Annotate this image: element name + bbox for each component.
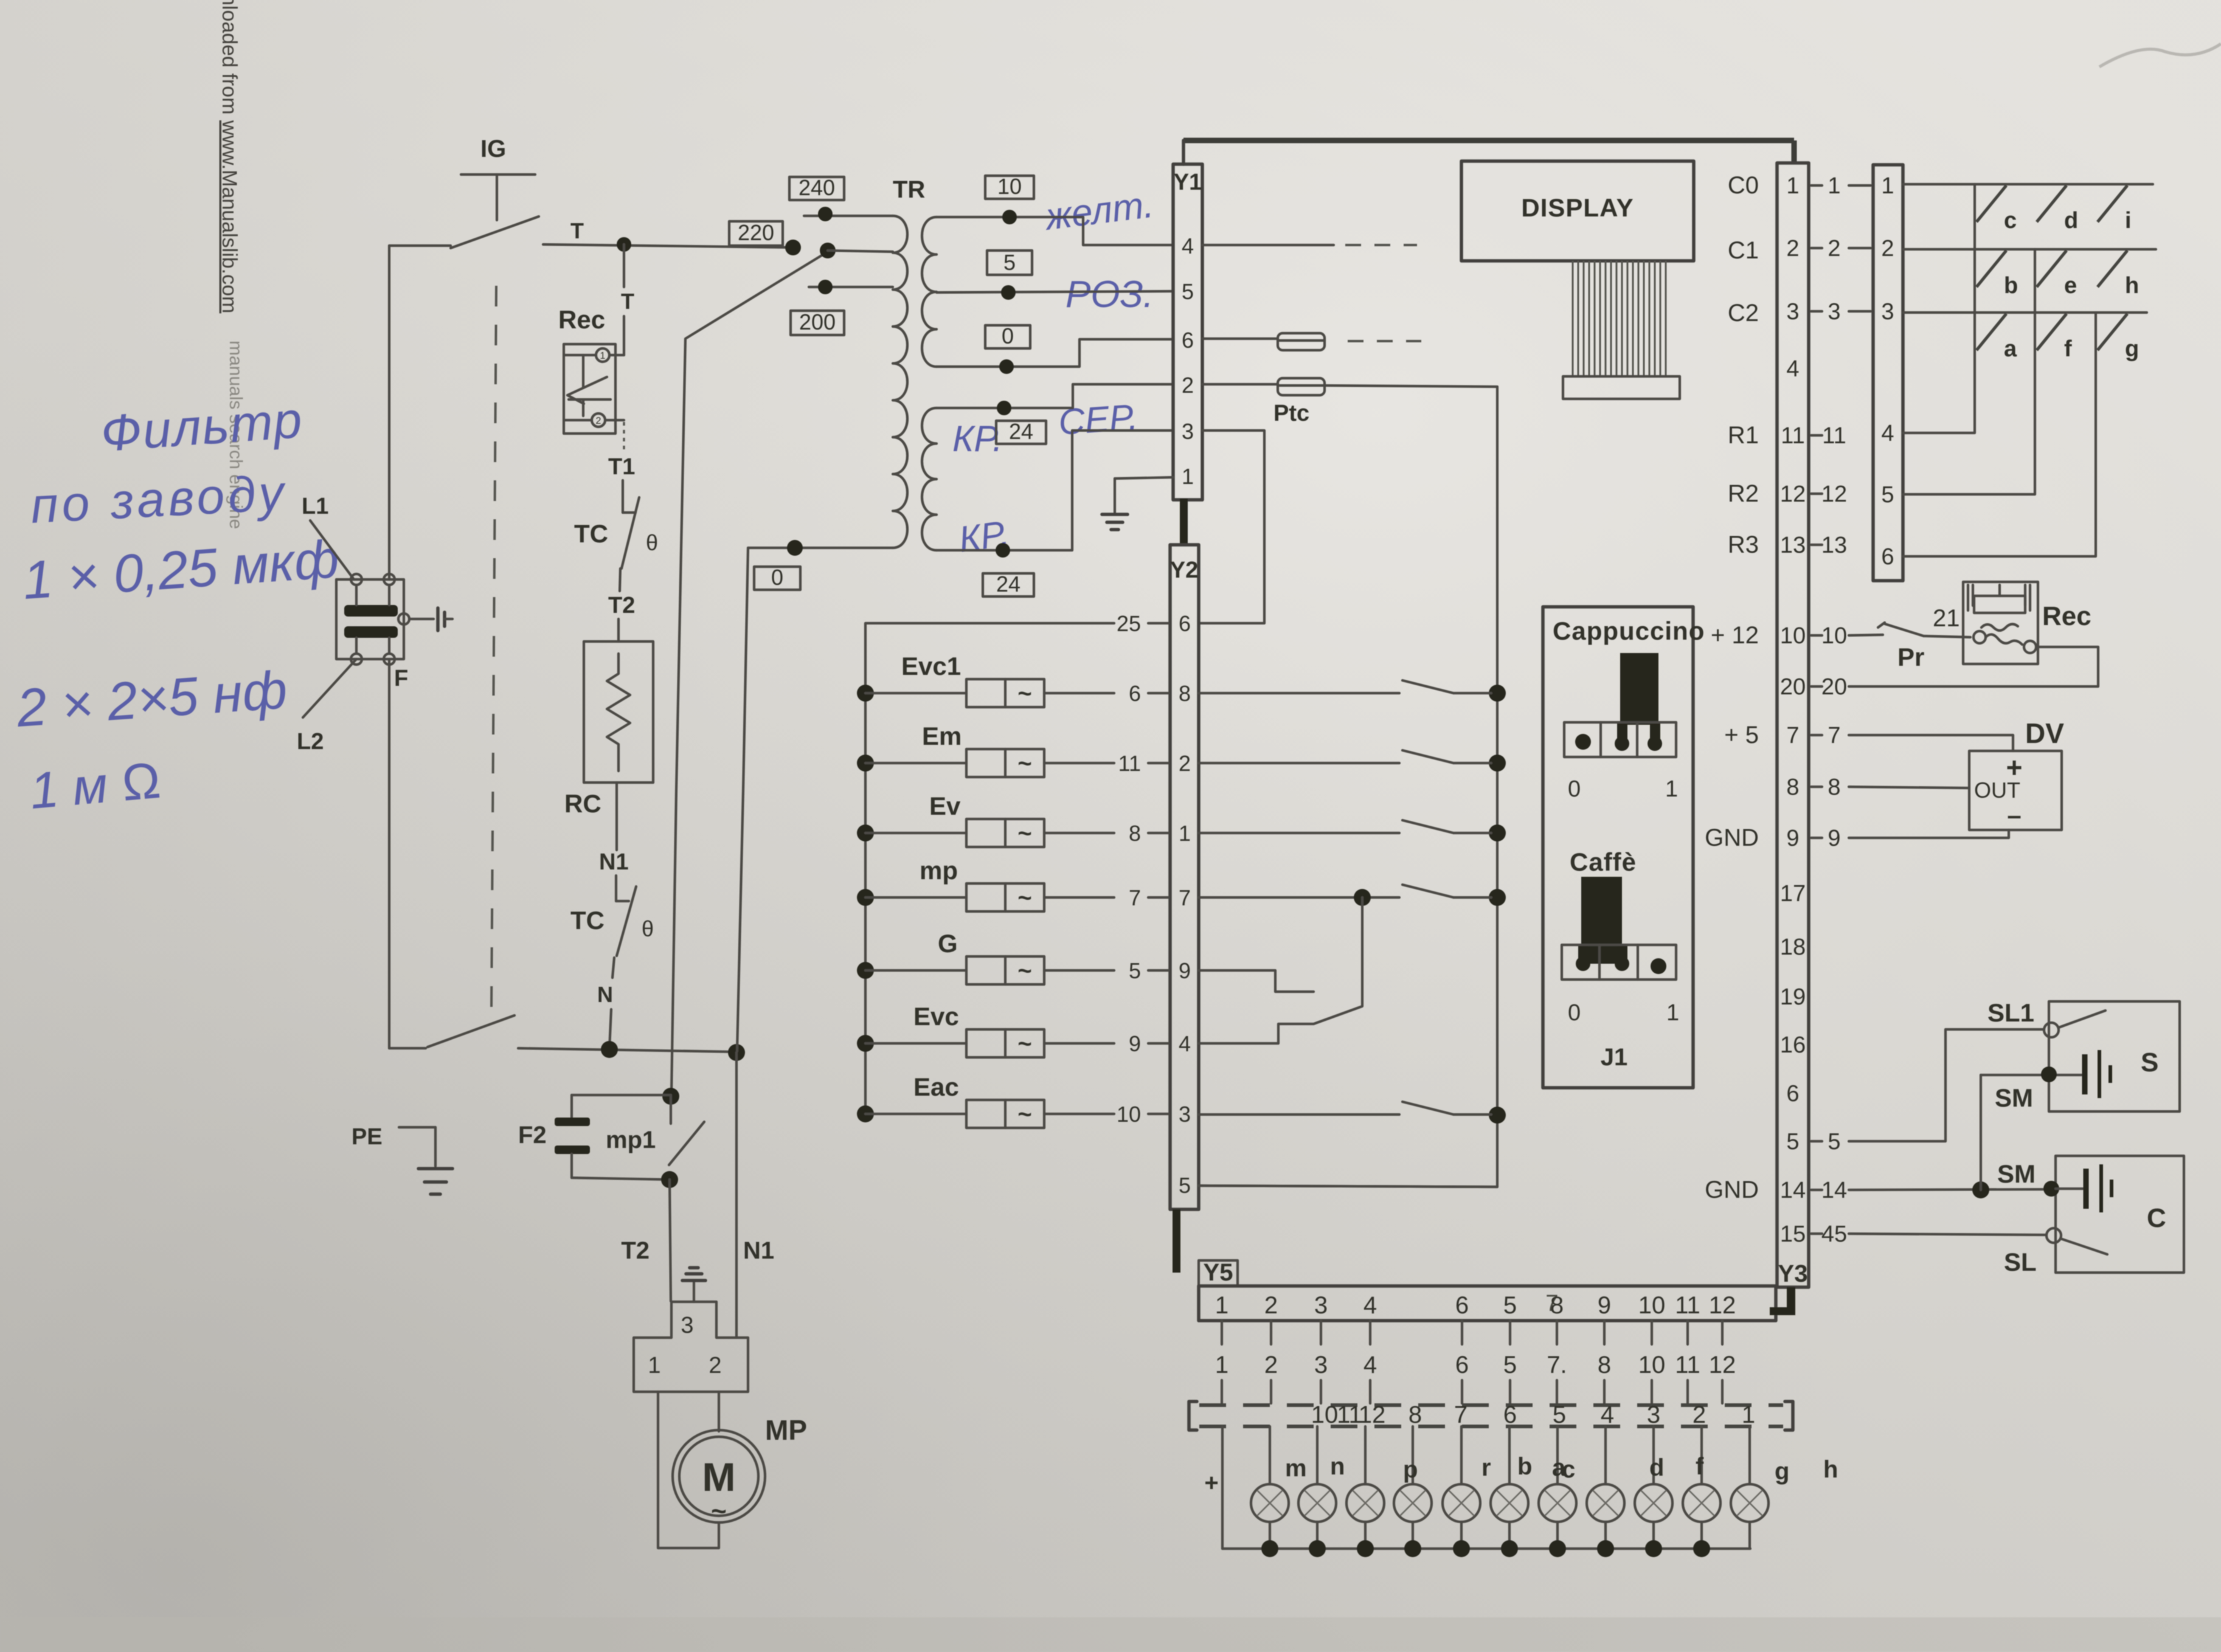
- motor connector block: [634, 1302, 748, 1392]
- triac Rec terminal 2: [592, 413, 605, 427]
- svg-text:8: 8: [1129, 821, 1141, 846]
- svg-text:Em: Em: [922, 722, 962, 750]
- svg-text:SL: SL: [2004, 1248, 2037, 1276]
- connector Y5 bar: [1199, 1286, 1776, 1321]
- svg-text:11: 11: [1118, 751, 1141, 776]
- svg-text:17: 17: [1780, 881, 1806, 907]
- svg-text:2: 2: [709, 1353, 721, 1378]
- tap 10 junction: [1002, 210, 1017, 224]
- svg-text:nloaded from www.Manualslib.co: nloaded from www.Manualslib.com: [218, 0, 241, 313]
- matrix column 1: [1903, 184, 1975, 433]
- key switch f: [2037, 314, 2067, 350]
- Cappuccino switch body: [1564, 722, 1676, 757]
- key switch i: [2098, 185, 2127, 222]
- tap 240 junction: [818, 207, 833, 221]
- wire rail down to filter: [388, 246, 390, 579]
- tap 5 junction: [1001, 285, 1016, 300]
- resistor RC zigzag: [607, 654, 630, 771]
- tap 0 sec junction: [999, 359, 1014, 374]
- svg-text:Caffè: Caffè: [1570, 848, 1637, 876]
- svg-text:Ev: Ev: [929, 792, 961, 820]
- svg-text:d: d: [1649, 1454, 1664, 1481]
- svg-text:12: 12: [1359, 1401, 1386, 1428]
- lamp LED8: [1604, 1426, 1607, 1484]
- wire Evc to mp junction: [1199, 897, 1362, 1043]
- svg-text:2: 2: [596, 416, 601, 426]
- triac Rec box: [564, 344, 615, 434]
- svg-text:2: 2: [1182, 373, 1194, 398]
- svg-text:9: 9: [1828, 826, 1840, 851]
- svg-text:G: G: [938, 929, 958, 958]
- svg-text:2: 2: [1693, 1401, 1706, 1428]
- svg-text:h: h: [1823, 1456, 1838, 1483]
- svg-text:14: 14: [1821, 1178, 1847, 1203]
- svg-text:–: –: [2007, 801, 2021, 829]
- wire 0 tap to N1: [737, 548, 748, 1051]
- svg-text:7: 7: [1179, 885, 1191, 910]
- svg-text:7: 7: [1129, 885, 1141, 910]
- wire T2 to motor connector: [670, 1180, 671, 1301]
- svg-text:6: 6: [1182, 328, 1194, 353]
- svg-text:~: ~: [1017, 1031, 1031, 1057]
- keyboard connector body: [1873, 165, 1903, 581]
- lamp common bus: [1222, 1547, 1750, 1550]
- matrix row 3: [1903, 311, 2147, 314]
- margin text manuals search engine: [226, 340, 246, 529]
- svg-text:Y2: Y2: [1170, 558, 1198, 583]
- svg-text:C1: C1: [1728, 237, 1759, 264]
- svg-text:7.: 7.: [1547, 1352, 1567, 1378]
- lamp f: [1700, 1426, 1703, 1484]
- svg-text:6: 6: [1129, 681, 1141, 706]
- svg-text:12: 12: [1780, 482, 1806, 507]
- wire pin14 to C sensor: [1849, 1189, 2056, 1190]
- net number 5 right of Y3: [1811, 1140, 1822, 1142]
- svg-text:18: 18: [1780, 935, 1806, 960]
- wire L-rail to IG: [389, 244, 451, 247]
- svg-text:T1: T1: [608, 454, 635, 480]
- svg-text:5: 5: [1881, 482, 1894, 508]
- filter earth stub: [409, 618, 434, 620]
- svg-text:10: 10: [1311, 1401, 1339, 1428]
- svg-text:3: 3: [1314, 1292, 1328, 1319]
- display ribbon bar: [1563, 376, 1680, 399]
- wire N1 to motor connector: [735, 1052, 738, 1338]
- svg-text:b: b: [1517, 1453, 1532, 1480]
- svg-text:p: p: [1403, 1456, 1418, 1483]
- svg-text:1: 1: [648, 1353, 660, 1378]
- svg-text:11: 11: [1781, 423, 1804, 449]
- matrix column 2: [1903, 249, 2035, 494]
- junction SM wire: [1972, 1181, 1989, 1198]
- receptacle Rec box: [1963, 582, 2038, 664]
- svg-text:24: 24: [1009, 419, 1033, 444]
- mechanical link dashed IG: [491, 286, 496, 1009]
- earth motor connector: [693, 1282, 695, 1302]
- wire TC to T2: [620, 569, 620, 591]
- key switch g: [2098, 314, 2127, 350]
- key switch a: [1977, 314, 2006, 350]
- svg-text:C0: C0: [1728, 172, 1759, 199]
- lamp m: [1269, 1426, 1271, 1484]
- tap box 200: [791, 311, 844, 335]
- svg-text:c: c: [2004, 208, 2017, 233]
- net number 11 right of Y3: [1811, 434, 1822, 437]
- svg-text:5: 5: [1003, 250, 1016, 275]
- svg-text:6: 6: [1179, 611, 1191, 636]
- svg-text:3: 3: [1786, 299, 1799, 325]
- svg-text:6: 6: [1455, 1292, 1469, 1319]
- wire tap 10 to Y1 pin 4: [937, 217, 1173, 245]
- svg-text:10: 10: [1780, 623, 1806, 649]
- wire T junction down: [623, 244, 625, 287]
- svg-text:4: 4: [1363, 1352, 1377, 1378]
- thermostat TC upper blade: [622, 497, 639, 569]
- svg-text:8: 8: [1598, 1352, 1611, 1378]
- svg-text:Y5: Y5: [1204, 1259, 1233, 1286]
- svg-text:f: f: [2064, 336, 2072, 362]
- svg-text:Evc1: Evc1: [901, 652, 961, 680]
- svg-text:3: 3: [1647, 1401, 1660, 1428]
- margin text Downloaded from www.Manualslib.com: [218, 0, 241, 313]
- tap 200 junction: [818, 280, 833, 294]
- svg-text:C2: C2: [1728, 300, 1759, 327]
- wire link 1 to keyboard: [1849, 184, 1871, 187]
- matrix column 3: [1903, 313, 2096, 556]
- svg-text:SL1: SL1: [1987, 998, 2034, 1027]
- Caffe slider: [1581, 877, 1622, 964]
- svg-text:m: m: [1285, 1455, 1307, 1482]
- wire 24V upper to Y1 pin 2: [937, 384, 1173, 408]
- svg-text:mp: mp: [920, 856, 958, 885]
- svg-text:F: F: [394, 666, 408, 691]
- terminal L1 lead: [310, 520, 354, 579]
- svg-text:GND: GND: [1705, 1177, 1759, 1203]
- solenoid Evc1: [857, 685, 874, 702]
- svg-text:20: 20: [1821, 674, 1847, 700]
- fuse Ptc lower: [1278, 378, 1325, 395]
- relay contact Em: [1199, 762, 1399, 764]
- svg-text:3: 3: [1182, 419, 1194, 444]
- svg-text:Evc: Evc: [913, 1002, 959, 1031]
- junction mp row: [1354, 889, 1371, 906]
- net number 1 right of Y3: [1811, 184, 1822, 187]
- svg-text:~: ~: [1017, 680, 1031, 707]
- svg-text:DISPLAY: DISPLAY: [1521, 193, 1634, 222]
- wire Y1 pin4 right dashed: [1202, 244, 1334, 246]
- wire Y1 pin6 to Ptc fuse: [1202, 337, 1278, 340]
- net number 12 right of Y3: [1811, 492, 1822, 495]
- svg-text:a: a: [2004, 336, 2017, 362]
- svg-text:5: 5: [1179, 1173, 1191, 1198]
- svg-text:10: 10: [1821, 623, 1847, 649]
- svg-text:b: b: [2004, 273, 2018, 299]
- tap box 5: [987, 251, 1032, 275]
- svg-text:~: ~: [711, 1496, 727, 1526]
- key switch d: [2037, 185, 2067, 222]
- connector Y3 body: [1777, 163, 1809, 1287]
- wire pin8 to DV out: [1849, 787, 1969, 788]
- svg-text:25: 25: [1117, 611, 1141, 636]
- label box Y5: [1199, 1260, 1238, 1286]
- svg-text:13: 13: [1821, 533, 1847, 558]
- junction F2 bottom: [661, 1171, 678, 1188]
- wire primary 0 tap: [748, 547, 893, 549]
- valve common bus: [865, 623, 1114, 1114]
- svg-text:3: 3: [1828, 299, 1840, 325]
- wire Pr to Rec: [1924, 636, 1970, 637]
- Caffe switch body: [1562, 945, 1676, 980]
- thermostat TC lower blade: [617, 886, 636, 956]
- net number 20 right of Y3: [1811, 685, 1822, 688]
- svg-text:1: 1: [600, 351, 606, 361]
- solenoid Em: [857, 755, 874, 772]
- svg-text:5: 5: [1503, 1352, 1517, 1378]
- svg-text:8: 8: [1828, 775, 1840, 800]
- tap box 24 lower: [983, 573, 1034, 596]
- lamp n: [1316, 1426, 1318, 1484]
- svg-text:Y3: Y3: [1778, 1260, 1808, 1287]
- svg-text:1: 1: [1179, 821, 1191, 846]
- lamp LED11: [1748, 1426, 1751, 1484]
- switch SL1 contact: [2044, 1023, 2059, 1037]
- svg-text:6: 6: [1881, 544, 1894, 570]
- solenoid Eac: [857, 1105, 874, 1122]
- sensor SM electrode in C: [2043, 1181, 2059, 1197]
- motor MP: [673, 1430, 765, 1522]
- svg-text:i: i: [2125, 208, 2132, 233]
- svg-text:+: +: [1204, 1470, 1218, 1496]
- key switch h: [2098, 251, 2127, 287]
- svg-text:RC: RC: [564, 789, 601, 818]
- lamp ac: [1556, 1426, 1559, 1484]
- svg-text:12: 12: [1709, 1292, 1736, 1319]
- terminal L2 lead: [303, 659, 356, 717]
- solenoid Evc: [857, 1035, 874, 1052]
- tap 0 junction: [787, 540, 803, 556]
- svg-text:Cappuccino: Cappuccino: [1553, 617, 1705, 645]
- solenoid mp: [857, 889, 874, 906]
- svg-text:7: 7: [1454, 1401, 1467, 1428]
- svg-text:5: 5: [1553, 1401, 1566, 1428]
- svg-text:1 м Ω: 1 м Ω: [27, 752, 163, 820]
- svg-text:1: 1: [1828, 173, 1840, 199]
- svg-text:IG: IG: [480, 136, 506, 162]
- svg-text:e: e: [2064, 273, 2077, 299]
- relay contact Ev: [1199, 832, 1399, 834]
- svg-text:4: 4: [1786, 356, 1799, 382]
- net number 7 right of Y3: [1811, 734, 1822, 736]
- svg-text:SM: SM: [1997, 1160, 2036, 1188]
- wire tap 240: [804, 215, 893, 217]
- svg-text:+ 5: + 5: [1724, 722, 1759, 748]
- svg-text:~: ~: [1017, 1101, 1031, 1128]
- svg-text:Y1: Y1: [1174, 170, 1202, 195]
- svg-text:M: M: [702, 1454, 736, 1499]
- wire Rec to T1: [605, 419, 624, 421]
- svg-text:R3: R3: [1728, 531, 1759, 558]
- svg-text:0: 0: [1568, 1000, 1581, 1026]
- svg-text:S: S: [2141, 1048, 2158, 1077]
- fuse Ptc upper: [1278, 333, 1325, 350]
- svg-text:21: 21: [1933, 605, 1960, 632]
- svg-text:3: 3: [681, 1313, 693, 1338]
- wire tap 200: [809, 286, 893, 288]
- wire T2 to RC: [617, 619, 620, 641]
- svg-text:1: 1: [1215, 1352, 1228, 1378]
- svg-text:N: N: [597, 982, 613, 1007]
- svg-text:0: 0: [771, 565, 783, 590]
- svg-text:9: 9: [1179, 958, 1191, 983]
- svg-text:r: r: [1481, 1454, 1491, 1481]
- svg-text:24: 24: [996, 572, 1020, 596]
- svg-text:MP: MP: [765, 1414, 807, 1446]
- svg-text:TC: TC: [570, 906, 605, 935]
- svg-text:11: 11: [1675, 1352, 1700, 1378]
- svg-text:8: 8: [1786, 775, 1799, 800]
- svg-text:L1: L1: [302, 494, 328, 519]
- svg-text:1: 1: [1665, 776, 1678, 802]
- svg-text:θ: θ: [646, 530, 658, 555]
- svg-text:3: 3: [1314, 1352, 1328, 1378]
- key switch b: [1977, 251, 2006, 287]
- link bar Y2-Y5: [1173, 1209, 1180, 1273]
- net number 9 right of Y3: [1811, 837, 1822, 839]
- svg-text:14: 14: [1780, 1178, 1806, 1203]
- svg-text:F2: F2: [518, 1122, 547, 1149]
- tap box 0 secondary: [985, 325, 1030, 348]
- link bar Y1-Y2: [1180, 499, 1188, 546]
- node T junction: [617, 237, 631, 252]
- lamp p: [1412, 1426, 1414, 1484]
- Rec resistor squiggle: [1981, 0, 2221, 631]
- svg-text:5: 5: [1828, 1129, 1840, 1155]
- filter F box: [336, 579, 404, 659]
- wire tap 0 to Y1 pin 6: [937, 339, 1173, 367]
- contact bus dots: [1489, 685, 1506, 702]
- lamp supply wire +: [1221, 1426, 1224, 1549]
- power module DV box: [1969, 751, 2062, 830]
- svg-text:TC: TC: [574, 519, 608, 548]
- svg-text:2: 2: [1786, 236, 1799, 261]
- matrix row 2: [1903, 248, 2156, 251]
- triac Rec internals: [565, 354, 596, 356]
- svg-text:N1: N1: [599, 849, 629, 875]
- relay contact Eac: [1199, 1113, 1399, 1116]
- wire pin2 to motor: [718, 1392, 720, 1431]
- svg-text:mp1: mp1: [606, 1127, 656, 1153]
- svg-text:+ 12: + 12: [1711, 622, 1759, 649]
- svg-text:4: 4: [1179, 1031, 1191, 1056]
- svg-text:20: 20: [1780, 674, 1806, 700]
- inline connector dashed: [1189, 1401, 1793, 1430]
- svg-text:OUT: OUT: [1974, 778, 2020, 803]
- net number 10 right of Y3: [1811, 634, 1822, 637]
- wire rail filter to main switch: [388, 659, 390, 1048]
- svg-text:10: 10: [1117, 1102, 1141, 1127]
- svg-text:T: T: [570, 218, 584, 243]
- svg-text:Eac: Eac: [913, 1073, 959, 1101]
- net number 13 right of Y3: [1811, 544, 1822, 546]
- svg-text:5: 5: [1182, 279, 1194, 304]
- svg-text:g: g: [2125, 336, 2139, 362]
- wire IG to T node: [543, 244, 793, 247]
- lamp LED3: [1364, 1426, 1367, 1484]
- wire tap 5 to Y1 pin 5: [937, 291, 1173, 292]
- 24V upper junction: [997, 401, 1011, 415]
- selector block J1: [1543, 607, 1693, 1088]
- svg-text:10: 10: [997, 174, 1022, 199]
- tap box 240: [789, 177, 844, 200]
- svg-text:4: 4: [1881, 421, 1894, 446]
- wire T branch down: [671, 252, 828, 1094]
- svg-text:7: 7: [1828, 723, 1840, 748]
- switch SL contact: [2046, 1228, 2061, 1243]
- svg-text:6: 6: [1786, 1081, 1799, 1107]
- capacitor F2: [572, 1094, 671, 1096]
- svg-text:TR: TR: [893, 176, 925, 203]
- svg-text:2: 2: [1881, 236, 1894, 261]
- svg-text:R2: R2: [1728, 480, 1759, 507]
- wire Rec to pin20: [1849, 647, 2098, 686]
- svg-text:DV: DV: [2025, 717, 2064, 749]
- wire switch to N junction: [389, 1047, 426, 1049]
- svg-text:4: 4: [1363, 1292, 1377, 1319]
- svg-text:РОЗ.: РОЗ.: [1065, 274, 1154, 316]
- key switch c: [1977, 185, 2006, 222]
- switch IG fixed bar: [461, 173, 535, 176]
- solenoid G: [857, 962, 874, 979]
- svg-text:Pr: Pr: [1897, 643, 1924, 671]
- svg-text:4: 4: [1182, 233, 1194, 258]
- earth PE symbol: [399, 1126, 435, 1128]
- wire Y1 pin3 to Y2 pin6: [1199, 430, 1264, 623]
- Y5 pin ticks upper: [1222, 1321, 1722, 1344]
- wire RC to N1: [615, 783, 618, 850]
- svg-text:Ptc: Ptc: [1273, 401, 1309, 426]
- svg-text:5: 5: [1786, 1129, 1799, 1155]
- ground at Y1 pin1: [1115, 477, 1173, 479]
- wire G stub: [1199, 970, 1314, 992]
- svg-text:2: 2: [1264, 1292, 1278, 1319]
- relay contact mp: [1199, 896, 1399, 899]
- svg-text:C: C: [2147, 1203, 2166, 1233]
- Y5 pin ticks lower: [1222, 1380, 1722, 1403]
- svg-text:~: ~: [1017, 820, 1031, 847]
- filter F capacitor plates: [344, 605, 398, 617]
- svg-text:240: 240: [799, 175, 835, 200]
- transformer TR primary winding: [893, 216, 907, 548]
- wire pin1 to motor: [658, 1392, 719, 1548]
- wire T to Rec: [623, 316, 625, 355]
- svg-text:R1: R1: [1728, 422, 1759, 449]
- svg-text:СЕР.: СЕР.: [1057, 396, 1139, 443]
- svg-text:7: 7: [1545, 1291, 1558, 1316]
- transformer TR secondary winding upper: [922, 217, 937, 367]
- svg-text:200: 200: [799, 309, 836, 334]
- svg-text:1: 1: [1881, 173, 1894, 199]
- svg-text:8: 8: [1408, 1401, 1422, 1428]
- svg-text:5: 5: [1503, 1292, 1517, 1319]
- wire Y1 pin2 to Ptc fuse: [1202, 383, 1278, 385]
- svg-text:1: 1: [1786, 173, 1799, 199]
- thermostat TC upper stub: [622, 480, 624, 513]
- svg-text:3: 3: [1179, 1102, 1191, 1127]
- svg-text:h: h: [2125, 273, 2139, 299]
- connector Y2: [1170, 545, 1199, 1209]
- svg-text:2: 2: [1264, 1352, 1278, 1378]
- svg-text:f: f: [1696, 1453, 1704, 1480]
